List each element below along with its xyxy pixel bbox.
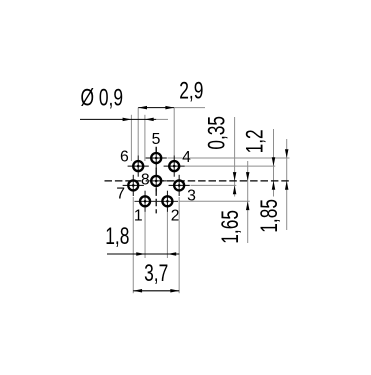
centerline vertical xyxy=(155,147,157,214)
dimension line 2,9 xyxy=(138,107,174,109)
dimension text 3,7 xyxy=(144,260,168,286)
svg-text:2,9: 2,9 xyxy=(179,78,203,104)
label pin 2 xyxy=(171,208,180,225)
pin 8 xyxy=(146,170,167,191)
arrow 0,35 upper xyxy=(233,172,237,181)
extension line pin6 column xyxy=(137,108,139,156)
dimension text 1,2 xyxy=(242,129,268,153)
dimension text 0,35 xyxy=(204,116,230,150)
svg-text:0,35: 0,35 xyxy=(204,116,230,150)
label pin 6 xyxy=(120,149,129,166)
svg-text:7: 7 xyxy=(116,185,125,202)
arrow 1,8 left xyxy=(136,252,145,256)
arrow 2,9 right xyxy=(165,106,174,110)
dimension text 1,85 xyxy=(256,199,282,233)
arrow 1,2 upper xyxy=(272,157,276,166)
svg-text:2: 2 xyxy=(171,208,180,225)
extension line diameter 0,9 left tangent xyxy=(130,115,132,161)
leader tail diameter 0,9 xyxy=(156,118,168,120)
svg-text:Ø 0,9: Ø 0,9 xyxy=(81,85,124,111)
svg-text:4: 4 xyxy=(182,149,191,166)
pin 4 xyxy=(164,156,185,177)
extension line pin1 column bottom xyxy=(144,212,146,258)
arrow 0,9 right xyxy=(145,118,154,122)
label pin 1 xyxy=(134,208,143,225)
label pin 5 xyxy=(152,131,161,148)
arrow 0,35 lower xyxy=(233,185,237,194)
dimension line 1,65 xyxy=(247,161,249,243)
label pin 4 xyxy=(182,149,191,166)
svg-text:1: 1 xyxy=(134,208,143,225)
pin 2 xyxy=(157,191,178,212)
extension line pin3 row xyxy=(191,184,237,186)
extension line pin5 row xyxy=(168,157,290,159)
pin 1 xyxy=(134,191,155,212)
dimension text 1,8 xyxy=(105,223,129,249)
label pin 7 xyxy=(116,185,125,202)
dimension line 1,2 xyxy=(273,129,275,197)
extension line pin4 column xyxy=(173,108,175,156)
extension line pin2 column bottom xyxy=(166,212,168,258)
svg-text:3: 3 xyxy=(187,188,196,205)
arrow 1,85 upper xyxy=(285,149,289,158)
svg-text:5: 5 xyxy=(152,131,161,148)
svg-text:8: 8 xyxy=(141,171,150,188)
arrow 1,2 lower xyxy=(272,181,276,190)
pin 7 xyxy=(123,175,144,196)
dimension line 3,7 xyxy=(133,290,179,292)
extension line pins 1-2 row xyxy=(179,200,250,202)
extension line pin4 row xyxy=(185,165,275,167)
arrow 1,85 lower xyxy=(285,181,289,190)
svg-text:1,2: 1,2 xyxy=(242,129,268,153)
svg-text:1,8: 1,8 xyxy=(105,223,129,249)
svg-text:3,7: 3,7 xyxy=(144,260,168,286)
arrow 3,7 right xyxy=(170,289,179,293)
label pin 3 xyxy=(187,188,196,205)
arrow 0,9 left xyxy=(123,118,132,122)
label pin 8 xyxy=(141,171,150,188)
svg-text:1,65: 1,65 xyxy=(217,210,243,244)
dimension text diameter 0,9 xyxy=(81,85,124,111)
pin 6 xyxy=(128,156,149,177)
dimension line 1,85 xyxy=(286,139,288,230)
dimension text 1,65 xyxy=(217,210,243,244)
arrow 1,8 right xyxy=(167,252,176,256)
pin 3 xyxy=(169,175,190,196)
arrow 1,65 lower xyxy=(246,201,250,210)
extension line pin3 column bottom xyxy=(178,197,180,293)
extension line diameter 0,9 right tangent xyxy=(144,115,146,161)
arrow 2,9 left xyxy=(138,106,147,110)
dimension line 1,8 xyxy=(107,253,179,255)
dimension line 0,35 xyxy=(234,117,236,197)
svg-text:1,85: 1,85 xyxy=(256,199,282,233)
leader line diameter 0,9 xyxy=(80,118,156,120)
svg-text:6: 6 xyxy=(120,149,129,166)
centerline horizontal xyxy=(105,180,291,182)
dimension line 2,9 tail xyxy=(174,107,205,109)
dimension text 2,9 xyxy=(179,78,203,104)
arrow 1,65 upper xyxy=(246,172,250,181)
pin 5 xyxy=(146,147,167,168)
extension line pin7 column bottom xyxy=(132,197,134,293)
arrow 3,7 left xyxy=(133,289,142,293)
